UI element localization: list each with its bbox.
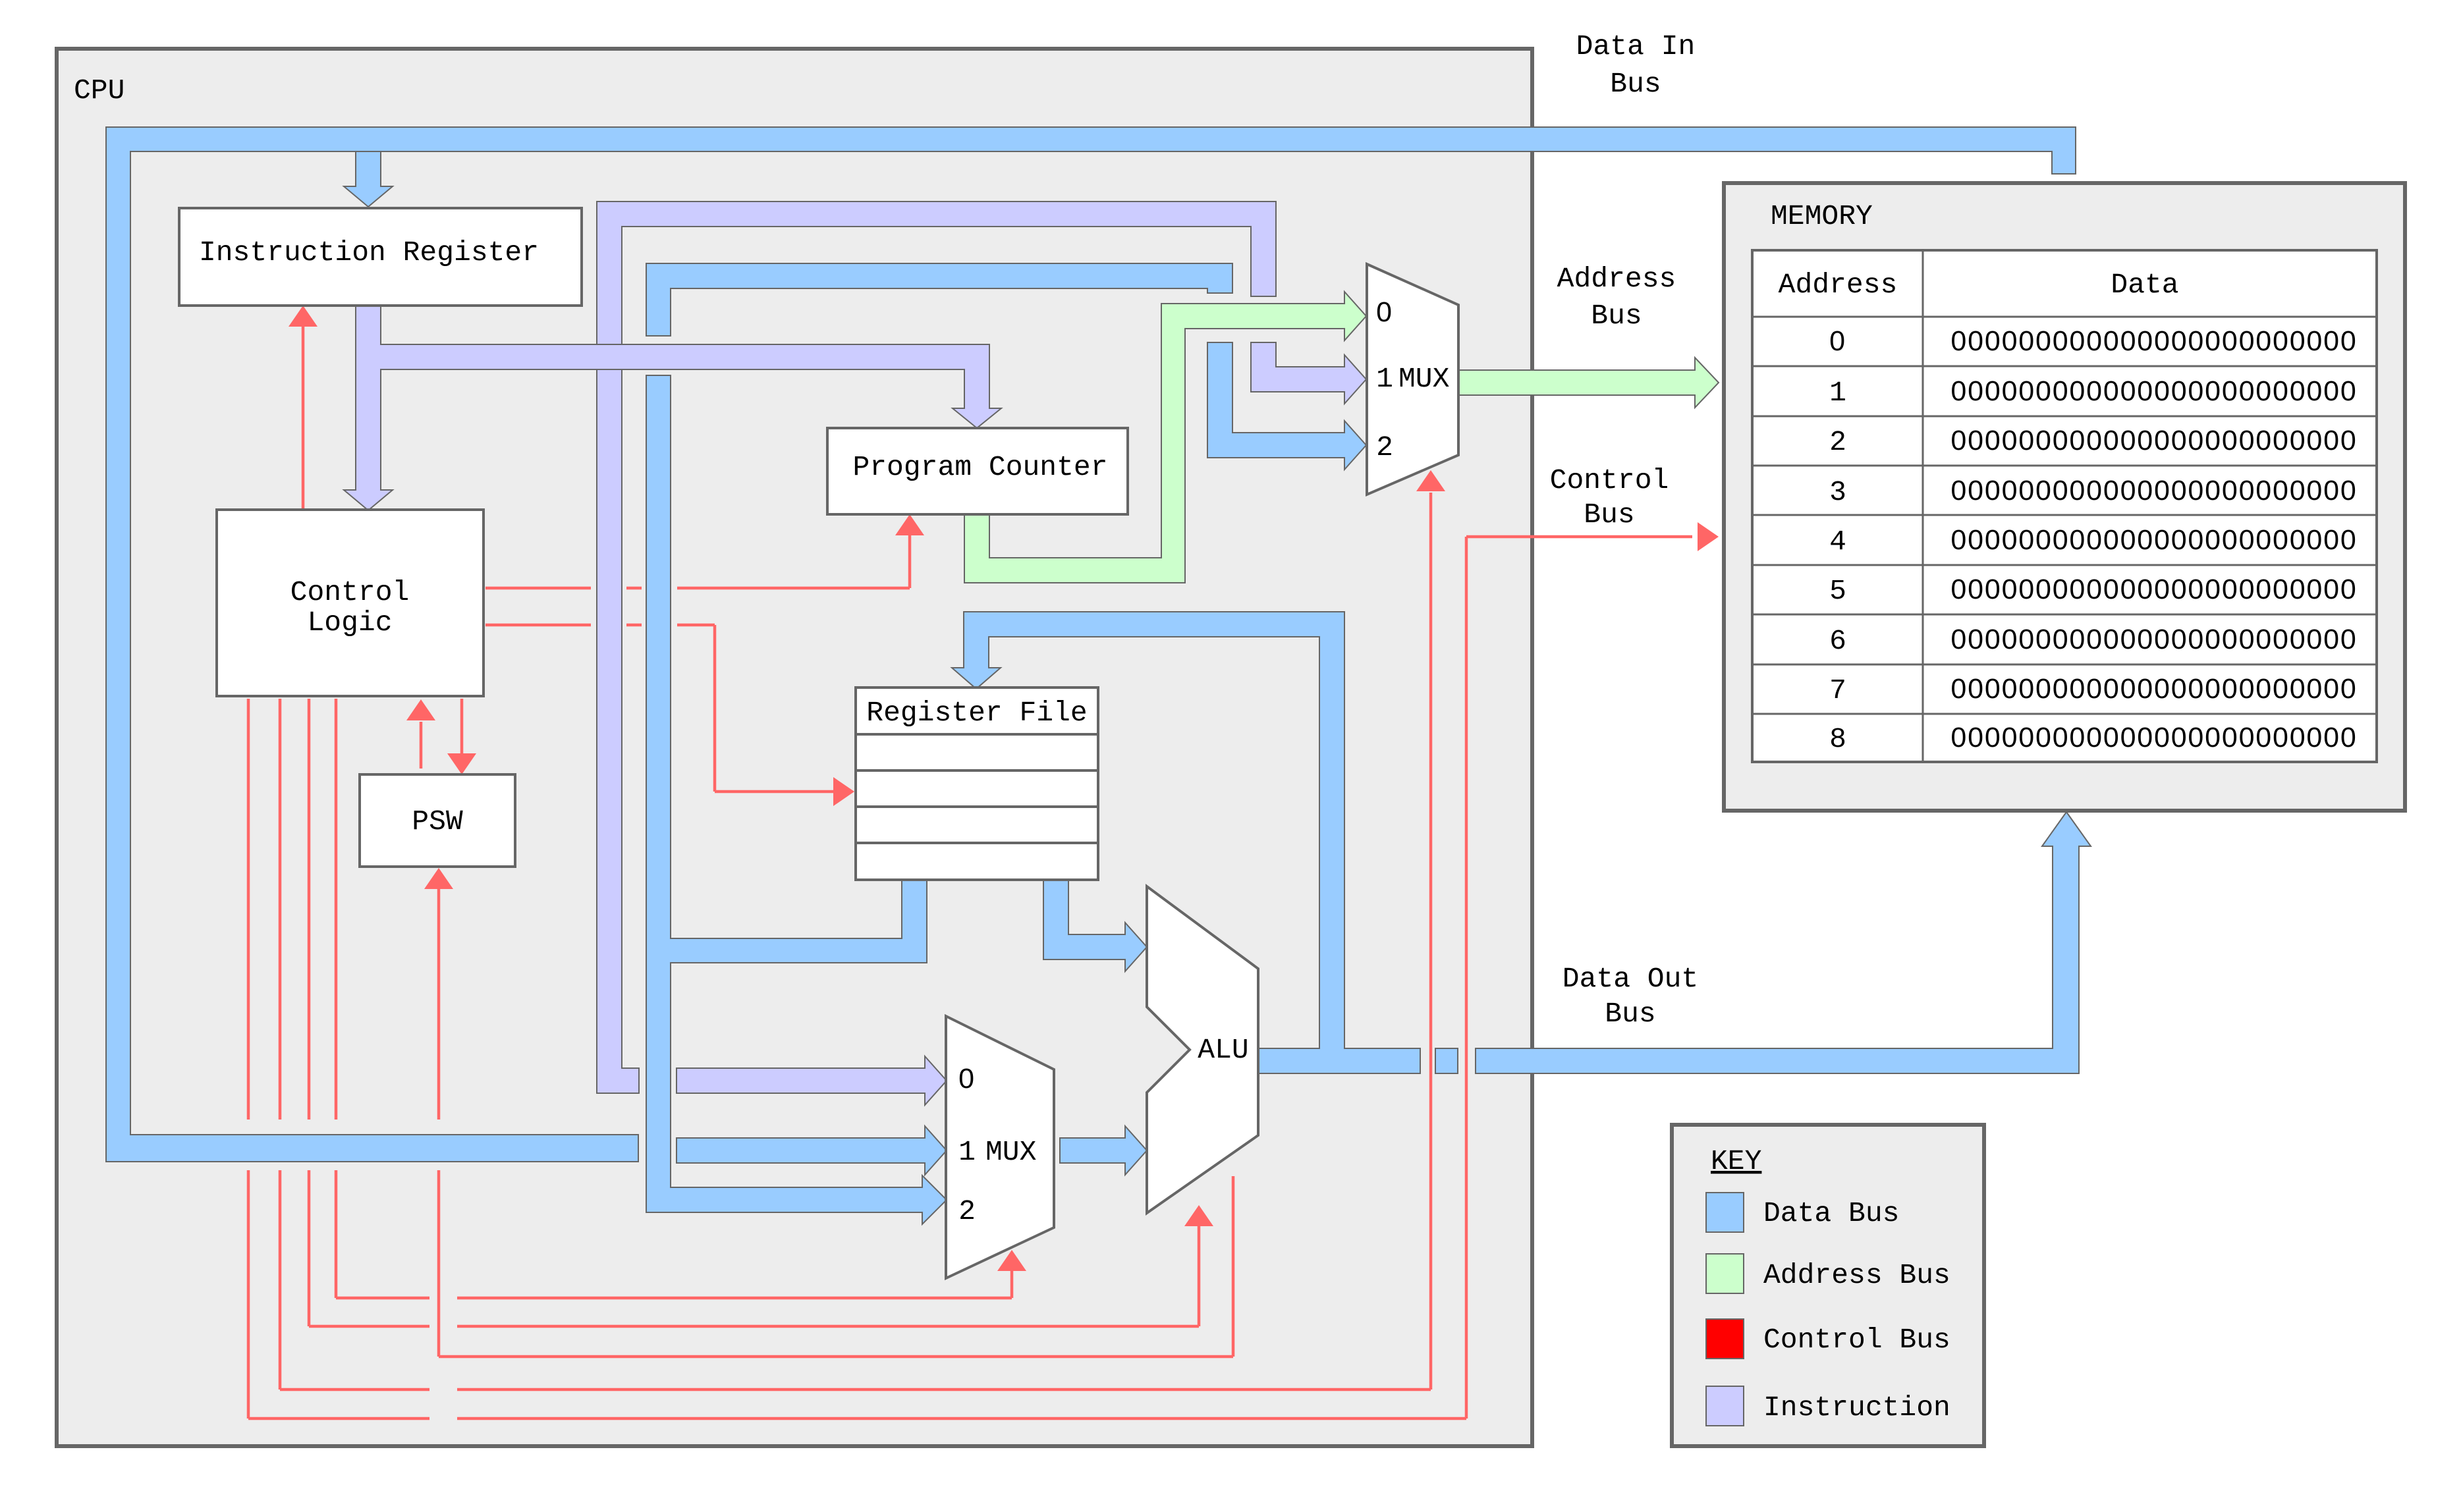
svg-text:000000000000000000000000: 000000000000000000000000 [1950, 624, 2357, 655]
svg-text:Data: Data [2111, 269, 2178, 301]
svg-text:4: 4 [1829, 526, 1846, 558]
svg-text:Address Bus: Address Bus [1763, 1259, 1950, 1291]
svg-text:Data In: Data In [1576, 30, 1696, 63]
svg-text:000000000000000000000000: 000000000000000000000000 [1950, 425, 2357, 456]
svg-text:Control Bus: Control Bus [1763, 1324, 1950, 1356]
svg-text:0: 0 [958, 1063, 976, 1094]
svg-text:Instruction Register: Instruction Register [199, 236, 539, 269]
svg-text:KEY: KEY [1711, 1145, 1762, 1177]
svg-text:000000000000000000000000: 000000000000000000000000 [1950, 325, 2357, 357]
svg-text:Data Bus: Data Bus [1763, 1197, 1899, 1229]
svg-text:MEMORY: MEMORY [1771, 200, 1873, 232]
svg-text:1: 1 [958, 1136, 976, 1168]
svg-text:MUX: MUX [1398, 363, 1450, 395]
svg-text:2: 2 [1376, 431, 1393, 464]
svg-text:CPU: CPU [74, 74, 124, 107]
svg-text:8: 8 [1829, 723, 1846, 755]
svg-text:Bus: Bus [1610, 68, 1661, 100]
svg-text:Data Out: Data Out [1562, 963, 1698, 995]
svg-text:7: 7 [1829, 674, 1846, 707]
svg-text:Bus: Bus [1605, 998, 1655, 1030]
svg-text:Control: Control [1550, 464, 1669, 497]
svg-text:Program Counter: Program Counter [852, 451, 1107, 483]
svg-text:ALU: ALU [1198, 1034, 1248, 1066]
svg-text:Address: Address [1557, 263, 1676, 295]
svg-text:0: 0 [1376, 296, 1393, 328]
svg-text:5: 5 [1829, 575, 1846, 607]
svg-text:2: 2 [1829, 426, 1846, 458]
svg-text:000000000000000000000000: 000000000000000000000000 [1950, 574, 2357, 605]
svg-text:3: 3 [1829, 476, 1846, 508]
svg-text:Register File: Register File [866, 697, 1087, 729]
svg-text:000000000000000000000000: 000000000000000000000000 [1950, 475, 2357, 506]
svg-text:Logic: Logic [307, 607, 392, 639]
svg-text:000000000000000000000000: 000000000000000000000000 [1950, 722, 2357, 753]
svg-text:1: 1 [1376, 363, 1393, 395]
svg-text:000000000000000000000000: 000000000000000000000000 [1950, 673, 2357, 705]
svg-text:1: 1 [1829, 377, 1846, 409]
svg-text:Control: Control [290, 576, 410, 608]
svg-text:Bus: Bus [1584, 499, 1634, 531]
svg-text:MUX: MUX [985, 1136, 1037, 1168]
svg-text:PSW: PSW [412, 805, 463, 838]
svg-text:2: 2 [958, 1195, 976, 1228]
svg-text:Instruction: Instruction [1763, 1391, 1950, 1424]
svg-text:0: 0 [1829, 325, 1846, 357]
svg-text:Bus: Bus [1591, 300, 1642, 332]
svg-text:000000000000000000000000: 000000000000000000000000 [1950, 375, 2357, 407]
svg-text:Address: Address [1779, 269, 1898, 301]
svg-text:000000000000000000000000: 000000000000000000000000 [1950, 524, 2357, 556]
svg-text:6: 6 [1829, 625, 1846, 657]
